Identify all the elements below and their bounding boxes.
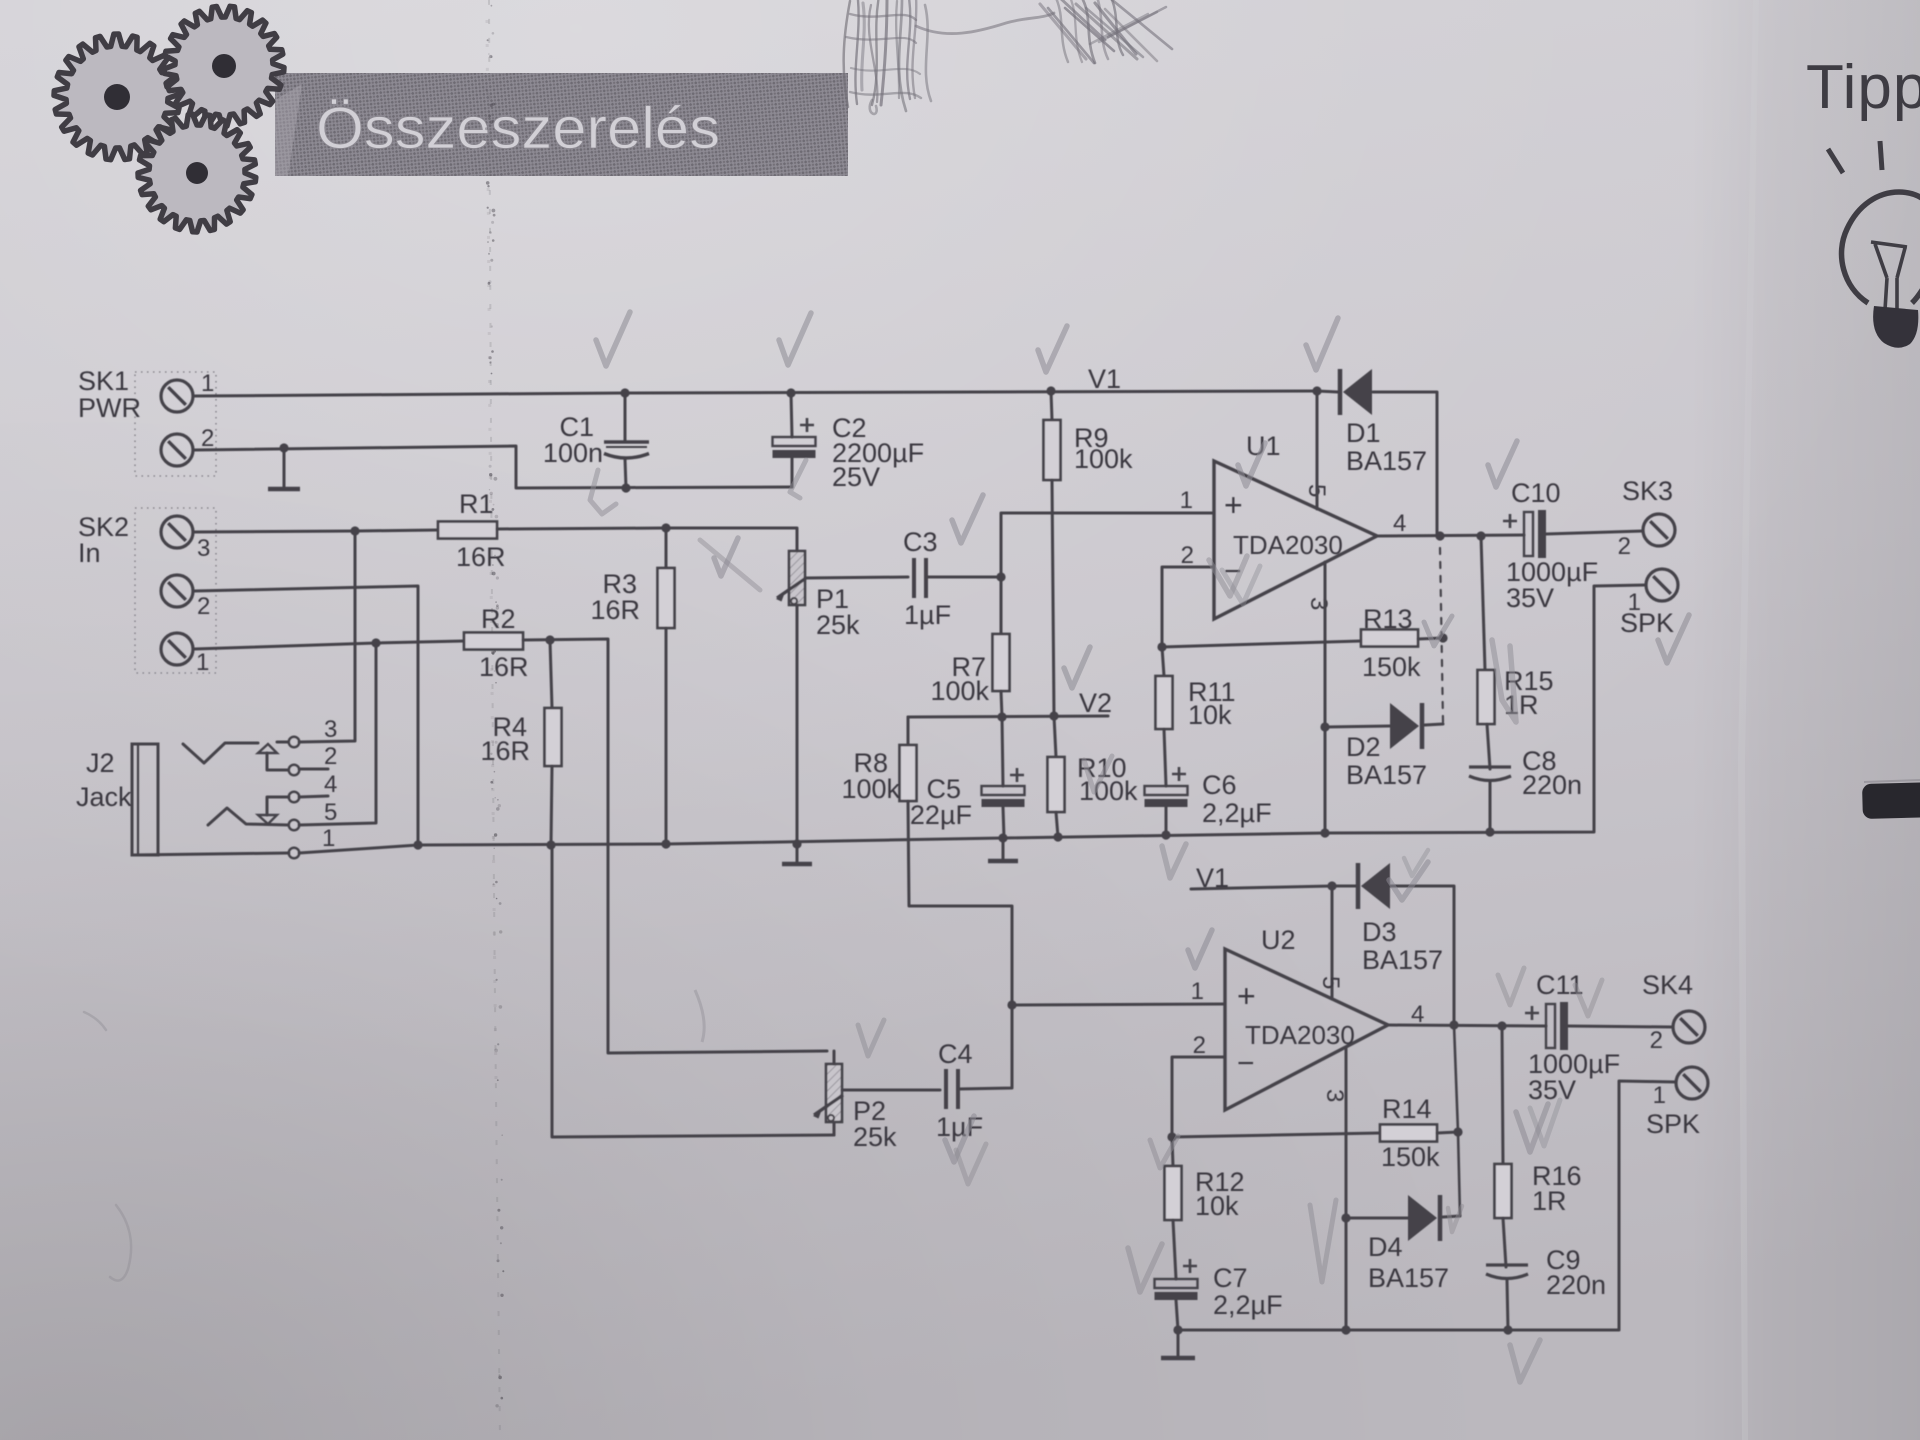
svg-text:150k: 150k — [1362, 652, 1421, 682]
resistor R14 150k — [1380, 1125, 1437, 1142]
wire R2 to P2 top — [523, 639, 827, 1053]
check D1 top — [1306, 318, 1338, 370]
wire V1 to D1 — [1317, 391, 1338, 392]
resistor R1 16R — [438, 522, 497, 539]
svg-text:3: 3 — [197, 535, 210, 562]
op-amp U1 TDA2030 — [1214, 461, 1377, 619]
svg-text:25V: 25V — [832, 462, 880, 492]
svg-text:2,2µF: 2,2µF — [1213, 1290, 1283, 1320]
check D2 bottom — [1389, 862, 1428, 900]
title bar Összeszerelés — [275, 73, 848, 176]
junction C9 ground ch2 — [1503, 1325, 1512, 1334]
svg-text:D1: D1 — [1346, 418, 1381, 448]
wire U2 pin2 — [1172, 1057, 1225, 1137]
wire R11 to C6 — [1164, 729, 1166, 786]
wire U1 output — [1377, 535, 1524, 536]
svg-text:+: + — [1224, 487, 1243, 523]
svg-text:D3: D3 — [1362, 917, 1397, 947]
svg-text:5: 5 — [324, 799, 337, 826]
svg-text:SK3: SK3 — [1622, 476, 1673, 506]
svg-text:U2: U2 — [1261, 925, 1296, 955]
wire jack pin4 stub — [299, 796, 328, 797]
svg-text:BA157: BA157 — [1346, 760, 1427, 790]
wire P1 bottom stub — [796, 605, 799, 844]
wire R8 top stub — [907, 717, 910, 745]
svg-text:100n: 100n — [543, 438, 603, 468]
check V2 right — [1064, 647, 1090, 688]
page crease — [487, 0, 500, 1440]
ground under P1 — [782, 844, 812, 864]
terminal SK3-1 SPK — [1646, 569, 1678, 601]
svg-text:2,2µF: 2,2µF — [1202, 798, 1272, 828]
svg-text:2: 2 — [197, 593, 210, 620]
terminal SK4-1 SPK — [1676, 1067, 1708, 1099]
wire R12 top stub — [1172, 1137, 1173, 1166]
terminal SK3-2 — [1643, 514, 1675, 546]
junction R3 top — [661, 523, 670, 532]
gear top right — [164, 6, 284, 126]
svg-text:2: 2 — [324, 743, 337, 770]
wire output riser channel2 — [1454, 1025, 1460, 1216]
pencil scribble left cluster — [844, 0, 931, 114]
svg-text:V1: V1 — [1088, 364, 1121, 394]
check C10 — [1488, 441, 1517, 487]
svg-text:C10: C10 — [1511, 478, 1561, 508]
svg-text:C7: C7 — [1213, 1263, 1248, 1293]
wire D3 to output — [1391, 886, 1454, 1025]
wire U1 pin2 — [1162, 567, 1212, 647]
wire jack lever top — [183, 743, 258, 763]
svg-text:D4: D4 — [1368, 1232, 1403, 1262]
svg-text:3: 3 — [1305, 597, 1332, 610]
svg-text:1: 1 — [1653, 1082, 1666, 1109]
capacitor C10 1000uF — [1503, 510, 1546, 558]
wire U1 pin3 to ground — [1324, 562, 1327, 833]
svg-text:Jack: Jack — [76, 782, 132, 812]
svg-text:1R: 1R — [1532, 1186, 1567, 1216]
check D4 — [1448, 1206, 1462, 1232]
capacitor C6 2.2uF — [1145, 767, 1188, 807]
svg-text:R14: R14 — [1382, 1094, 1432, 1124]
check U1 pin2 b — [1222, 566, 1260, 604]
wire ground rail channel 2 — [1178, 1081, 1676, 1330]
wire P2 wiper to C4 — [842, 1089, 940, 1092]
wire R10 bottom stub — [1056, 812, 1058, 837]
check C11 left — [1498, 968, 1524, 1005]
svg-text:25k: 25k — [853, 1122, 897, 1152]
wire D2 to riser — [1425, 724, 1443, 725]
svg-text:1: 1 — [196, 649, 209, 676]
wire C2 bottom stub — [791, 458, 794, 487]
wire C5 bottom stub — [1003, 807, 1004, 838]
junction C2/V1 — [786, 388, 795, 397]
check C1 bottom loop — [590, 470, 616, 514]
svg-text:4: 4 — [1393, 510, 1406, 537]
check D3 top — [1404, 850, 1428, 876]
svg-text:2: 2 — [201, 425, 214, 452]
junction C4 pin1 U2 — [1007, 1000, 1016, 1009]
check U1 pin1 — [1238, 443, 1265, 486]
svg-text:1: 1 — [1180, 487, 1193, 514]
wire R10 top stub — [1054, 716, 1056, 757]
terminal SK4-2 — [1673, 1011, 1705, 1043]
junction R14 output riser — [1453, 1127, 1462, 1136]
resistor R8 100k — [900, 745, 917, 801]
pencil scribble right cluster — [1040, 0, 1172, 63]
svg-text:100k: 100k — [1074, 444, 1133, 474]
wire R9 to V2 — [1052, 480, 1054, 716]
check R12 top — [1150, 1136, 1178, 1168]
junction D1 pin5 V1 — [1312, 386, 1321, 395]
wire C1 top stub — [624, 393, 627, 441]
wire U1 pin5 — [1316, 391, 1319, 509]
wire pin2 to R13 — [1162, 641, 1361, 647]
wire D4 to riser — [1443, 1216, 1460, 1217]
wire R4 top stub — [550, 640, 552, 708]
svg-text:+: + — [1237, 978, 1256, 1014]
capacitor C2 2200uF — [773, 418, 816, 458]
check pin3 ch2 — [1310, 1200, 1336, 1282]
check U2 top — [1188, 930, 1212, 968]
svg-text:R2: R2 — [481, 604, 516, 634]
svg-text:2: 2 — [1618, 533, 1631, 560]
check C4 b — [956, 1144, 986, 1184]
wire jack contact to pin2 — [267, 753, 289, 770]
pencil scribble wavy line — [916, 13, 1054, 34]
jack pin 3 — [289, 737, 299, 747]
svg-text:2: 2 — [1650, 1027, 1663, 1054]
jack pin 4 — [289, 792, 299, 802]
wire R7 bottom stub — [1001, 691, 1002, 717]
junction R7 C5 V2 — [997, 712, 1006, 721]
jack pin 1 — [289, 848, 299, 858]
resistor R15 1R — [1478, 670, 1495, 724]
svg-text:1: 1 — [1191, 978, 1204, 1005]
SK2 dashed outline — [135, 508, 216, 673]
svg-text:5: 5 — [1317, 976, 1344, 989]
svg-text:22µF: 22µF — [910, 800, 972, 830]
jack make contact top — [258, 744, 277, 753]
svg-text:100k: 100k — [930, 676, 989, 706]
capacitor C9 220n — [1486, 1265, 1528, 1279]
junction U1 pin3 bottom — [1320, 828, 1329, 837]
wire jack pin4 drop — [266, 797, 269, 815]
check C2 top — [779, 313, 811, 365]
svg-text:3: 3 — [324, 716, 337, 743]
check R9 top — [1038, 326, 1067, 372]
wire P2 top stub — [833, 1051, 836, 1064]
capacitor C4 1uF — [946, 1069, 958, 1109]
junction R9 R10 V2 — [1049, 711, 1058, 720]
junction R3 bottom — [661, 839, 670, 848]
svg-text:Tipp: Tipp — [1806, 53, 1920, 122]
svg-text:BA157: BA157 — [1368, 1263, 1449, 1293]
capacitor C11 1000uF — [1525, 1002, 1568, 1050]
svg-text:1: 1 — [201, 370, 214, 397]
wire U2 output — [1388, 1025, 1546, 1026]
wire C9 bottom stub — [1507, 1280, 1508, 1330]
ground at SK1-2 — [268, 448, 300, 489]
jack pin 2 — [289, 765, 299, 775]
svg-text:TDA2030: TDA2030 — [1245, 1020, 1355, 1050]
junction C1 bottom — [621, 483, 630, 492]
svg-text:SPK: SPK — [1620, 608, 1674, 638]
svg-text:R13: R13 — [1363, 604, 1413, 634]
wire ground rail channel 1 — [299, 585, 1646, 853]
svg-text:V2: V2 — [1079, 688, 1112, 718]
potentiometer P2 25k — [813, 1064, 843, 1122]
junction R4 top — [545, 635, 554, 644]
junction D3 output — [1449, 1020, 1458, 1029]
svg-text:16R: 16R — [480, 736, 530, 766]
wire C11 to SK4 — [1568, 1026, 1673, 1027]
terminal SK2-2 — [161, 575, 193, 607]
connector J2 jack body — [132, 744, 158, 855]
resistor R3 16R — [658, 568, 675, 628]
capacitor C7 2.2uF — [1155, 1259, 1198, 1300]
wire R16 to C9 — [1503, 1218, 1506, 1267]
junction D4 anode — [1341, 1213, 1350, 1222]
capacitor C5 22uF — [982, 768, 1025, 807]
svg-text:220n: 220n — [1546, 1270, 1606, 1300]
svg-text:1µF: 1µF — [904, 600, 951, 630]
crease speckles — [485, 5, 504, 1408]
junction D1 output — [1435, 531, 1444, 540]
wire SK2-3 to R1 — [194, 530, 438, 532]
wire V2 rail — [908, 716, 1108, 717]
junction R16 output — [1497, 1021, 1506, 1030]
junction R15 output — [1476, 531, 1485, 540]
wire C8 bottom stub — [1489, 782, 1492, 832]
svg-text:35V: 35V — [1506, 583, 1554, 613]
wire C4 node to U2 pin1 — [1012, 1004, 1225, 1005]
diode D3 BA157 — [1358, 863, 1390, 909]
svg-text:16R: 16R — [479, 652, 529, 682]
check 35V ch2 b — [1530, 1100, 1560, 1146]
terminal SK2-1 — [161, 633, 193, 665]
resistor R16 1R — [1495, 1164, 1512, 1218]
svg-text:2: 2 — [1193, 1032, 1206, 1059]
wire U2 pin3 to ground — [1345, 1047, 1348, 1330]
wire R16 top — [1502, 1026, 1503, 1164]
svg-text:16R: 16R — [456, 542, 506, 572]
junction P1 bottom — [792, 839, 801, 848]
black margin bar — [1862, 782, 1920, 819]
light bulb icon — [1828, 141, 1920, 348]
gear large left — [54, 34, 180, 160]
resistor R10 100k — [1048, 757, 1065, 812]
svg-text:35V: 35V — [1528, 1075, 1576, 1105]
junction SK2-2 ground — [413, 840, 422, 849]
junction C5 bottom — [998, 833, 1007, 842]
svg-text:150k: 150k — [1381, 1142, 1440, 1172]
check R10 — [1084, 756, 1112, 792]
resistor R11 10k — [1156, 676, 1173, 729]
wire ground to P2 bottom — [552, 845, 834, 1137]
check R13 — [1424, 616, 1452, 646]
black margin bar shadow line — [1864, 780, 1920, 782]
resistor R9 100k — [1044, 420, 1061, 480]
junction C3 R7 pin1 — [996, 572, 1005, 581]
check C2 bottom — [790, 460, 806, 498]
junction jack pin5 riser — [371, 638, 380, 647]
wire C7 bottom stub — [1176, 1300, 1178, 1330]
wire R3 top stub — [665, 528, 668, 568]
op-amp U2 TDA2030 — [1225, 949, 1388, 1110]
wire U2 pin5 — [1331, 886, 1334, 999]
ground channel 2 — [1161, 1330, 1195, 1358]
wire R13 right — [1418, 638, 1443, 639]
check U1 pin2 — [1209, 556, 1247, 596]
terminal SK2-3 — [161, 516, 193, 548]
capacitor C3 1uF — [914, 558, 926, 598]
wire R15 top — [1481, 536, 1485, 670]
wire C5 top stub — [1002, 717, 1003, 786]
resistor R4 16R — [545, 708, 562, 766]
junction R13 output riser — [1438, 633, 1447, 642]
wire D1 to output — [1373, 392, 1437, 536]
wire R9 top stub — [1051, 391, 1052, 420]
check C4 — [945, 1116, 974, 1162]
svg-text:J2: J2 — [86, 748, 115, 778]
svg-text:D2: D2 — [1346, 732, 1381, 762]
wire jack sleeve to rail — [132, 853, 289, 855]
wire R11 top stub — [1162, 647, 1164, 676]
pencil faint stroke mid — [695, 990, 704, 1042]
svg-text:PWR: PWR — [78, 393, 141, 423]
wire R15 to C8 — [1487, 724, 1490, 769]
wire C10 to SK3 — [1546, 531, 1643, 534]
wire pin2 to R14 — [1172, 1133, 1380, 1137]
wire C2 top stub — [791, 393, 792, 437]
wire pin3 to D4 — [1346, 1217, 1408, 1220]
check ground ch2 — [1510, 1340, 1540, 1382]
junction C8 bottom — [1485, 827, 1494, 836]
gear bottom — [138, 114, 256, 232]
svg-text:C6: C6 — [1202, 770, 1237, 800]
pencil mark faint bottom-left — [84, 1012, 131, 1281]
svg-text:1: 1 — [322, 825, 335, 852]
junction C6 bottom — [1161, 830, 1170, 839]
check C1 top — [596, 312, 630, 366]
junction pin3 ground ch2 — [1341, 1325, 1350, 1334]
capacitor C1 100n — [604, 442, 649, 458]
wire output to R13 D2 dashed — [1440, 548, 1443, 722]
jack make contact bottom — [258, 815, 277, 824]
resistor R2 16R — [464, 633, 523, 650]
potentiometer P1 25k — [776, 551, 806, 605]
wire R8 to C4 node — [908, 801, 1012, 1089]
svg-text:3: 3 — [1321, 1089, 1348, 1102]
svg-text:16R: 16R — [590, 595, 640, 625]
svg-text:SPK: SPK — [1646, 1109, 1700, 1139]
svg-text:2: 2 — [1181, 542, 1194, 569]
svg-text:C4: C4 — [938, 1039, 973, 1069]
check C7 — [1128, 1244, 1162, 1292]
check P1 — [714, 538, 738, 576]
resistor R12 10k — [1165, 1166, 1182, 1220]
wire R4 bottom stub — [551, 766, 552, 845]
capacitor C8 220n — [1469, 767, 1511, 781]
junction C7 ground ch2 — [1173, 1325, 1182, 1334]
wire C3 to node — [926, 576, 1001, 579]
junction ground stub — [279, 443, 288, 452]
resistor R7 100k — [993, 634, 1010, 691]
svg-text:−: − — [1237, 1047, 1255, 1080]
stroke near P1 — [700, 540, 760, 590]
wire jack lever bottom — [208, 808, 289, 825]
svg-text:R1: R1 — [459, 489, 494, 519]
wire P2 bottom stub — [833, 1122, 836, 1135]
svg-text:25k: 25k — [816, 610, 860, 640]
wire jack pin4 left — [268, 796, 289, 799]
svg-text:10k: 10k — [1195, 1191, 1239, 1221]
wire SK2-2 to ground rail — [194, 586, 418, 845]
diode D2 BA157 — [1390, 703, 1422, 749]
junction R4 bottom / P2 return — [546, 840, 555, 849]
wire P1 wiper to C3 — [805, 577, 908, 578]
svg-text:100k: 100k — [841, 774, 900, 804]
junction R11 R13 pin2 — [1157, 642, 1166, 651]
svg-text:220n: 220n — [1522, 770, 1582, 800]
svg-text:SK1: SK1 — [78, 366, 129, 396]
wire jack lever to pin3 — [277, 741, 289, 744]
check C6 ground — [1162, 844, 1186, 878]
wire R1 to P1 — [497, 528, 797, 551]
junction R9/V1 — [1046, 386, 1055, 395]
wire jack pin5 riser — [299, 643, 376, 825]
diode D4 BA157 — [1408, 1195, 1440, 1241]
junction R10 bottom — [1053, 832, 1062, 841]
junction C1/V1 — [620, 388, 629, 397]
wire pin3 to D2 — [1325, 726, 1390, 727]
svg-text:SK4: SK4 — [1642, 970, 1693, 1000]
wire SK2-1 to R2 — [194, 641, 464, 649]
wire R12 to C7 — [1173, 1220, 1176, 1279]
junction U2 pin5 V1 — [1327, 881, 1336, 890]
terminal SK1-1 — [161, 380, 193, 412]
svg-text:BA157: BA157 — [1346, 446, 1427, 476]
svg-text:Összeszerelés: Összeszerelés — [316, 96, 720, 161]
junction D2 anode — [1320, 722, 1329, 731]
wire R3 bottom stub — [665, 628, 668, 844]
svg-text:10k: 10k — [1188, 700, 1232, 730]
svg-text:BA157: BA157 — [1362, 945, 1443, 975]
terminal SK1-2 — [161, 434, 193, 466]
SK1 dashed outline — [135, 372, 216, 476]
check 35V ch2 — [1516, 1104, 1548, 1152]
jack pin 5 — [289, 820, 299, 830]
resistor R13 150k — [1361, 630, 1418, 647]
wire SK1-2 to C2 bottom — [194, 446, 792, 488]
wire jack pin3 riser — [299, 531, 355, 742]
check R15 tall — [1492, 640, 1516, 722]
svg-text:4: 4 — [324, 771, 337, 798]
wire node to U1 pin1 — [1001, 513, 1212, 577]
check C11 — [1575, 980, 1602, 1016]
junction R12 R14 pin2 — [1167, 1132, 1176, 1141]
wire C1 bottom stub — [625, 459, 626, 488]
svg-text:In: In — [78, 538, 101, 568]
check SPK ch1 — [1658, 615, 1689, 663]
junction jack pin3 riser — [350, 526, 359, 535]
wire R14 right — [1437, 1132, 1458, 1133]
ground under C5 — [988, 838, 1018, 861]
diode D1 BA157 — [1340, 369, 1372, 415]
wire V1 rail — [194, 391, 1317, 396]
wire V1 stub channel 2 — [1191, 886, 1356, 889]
check P2 — [858, 1020, 884, 1056]
